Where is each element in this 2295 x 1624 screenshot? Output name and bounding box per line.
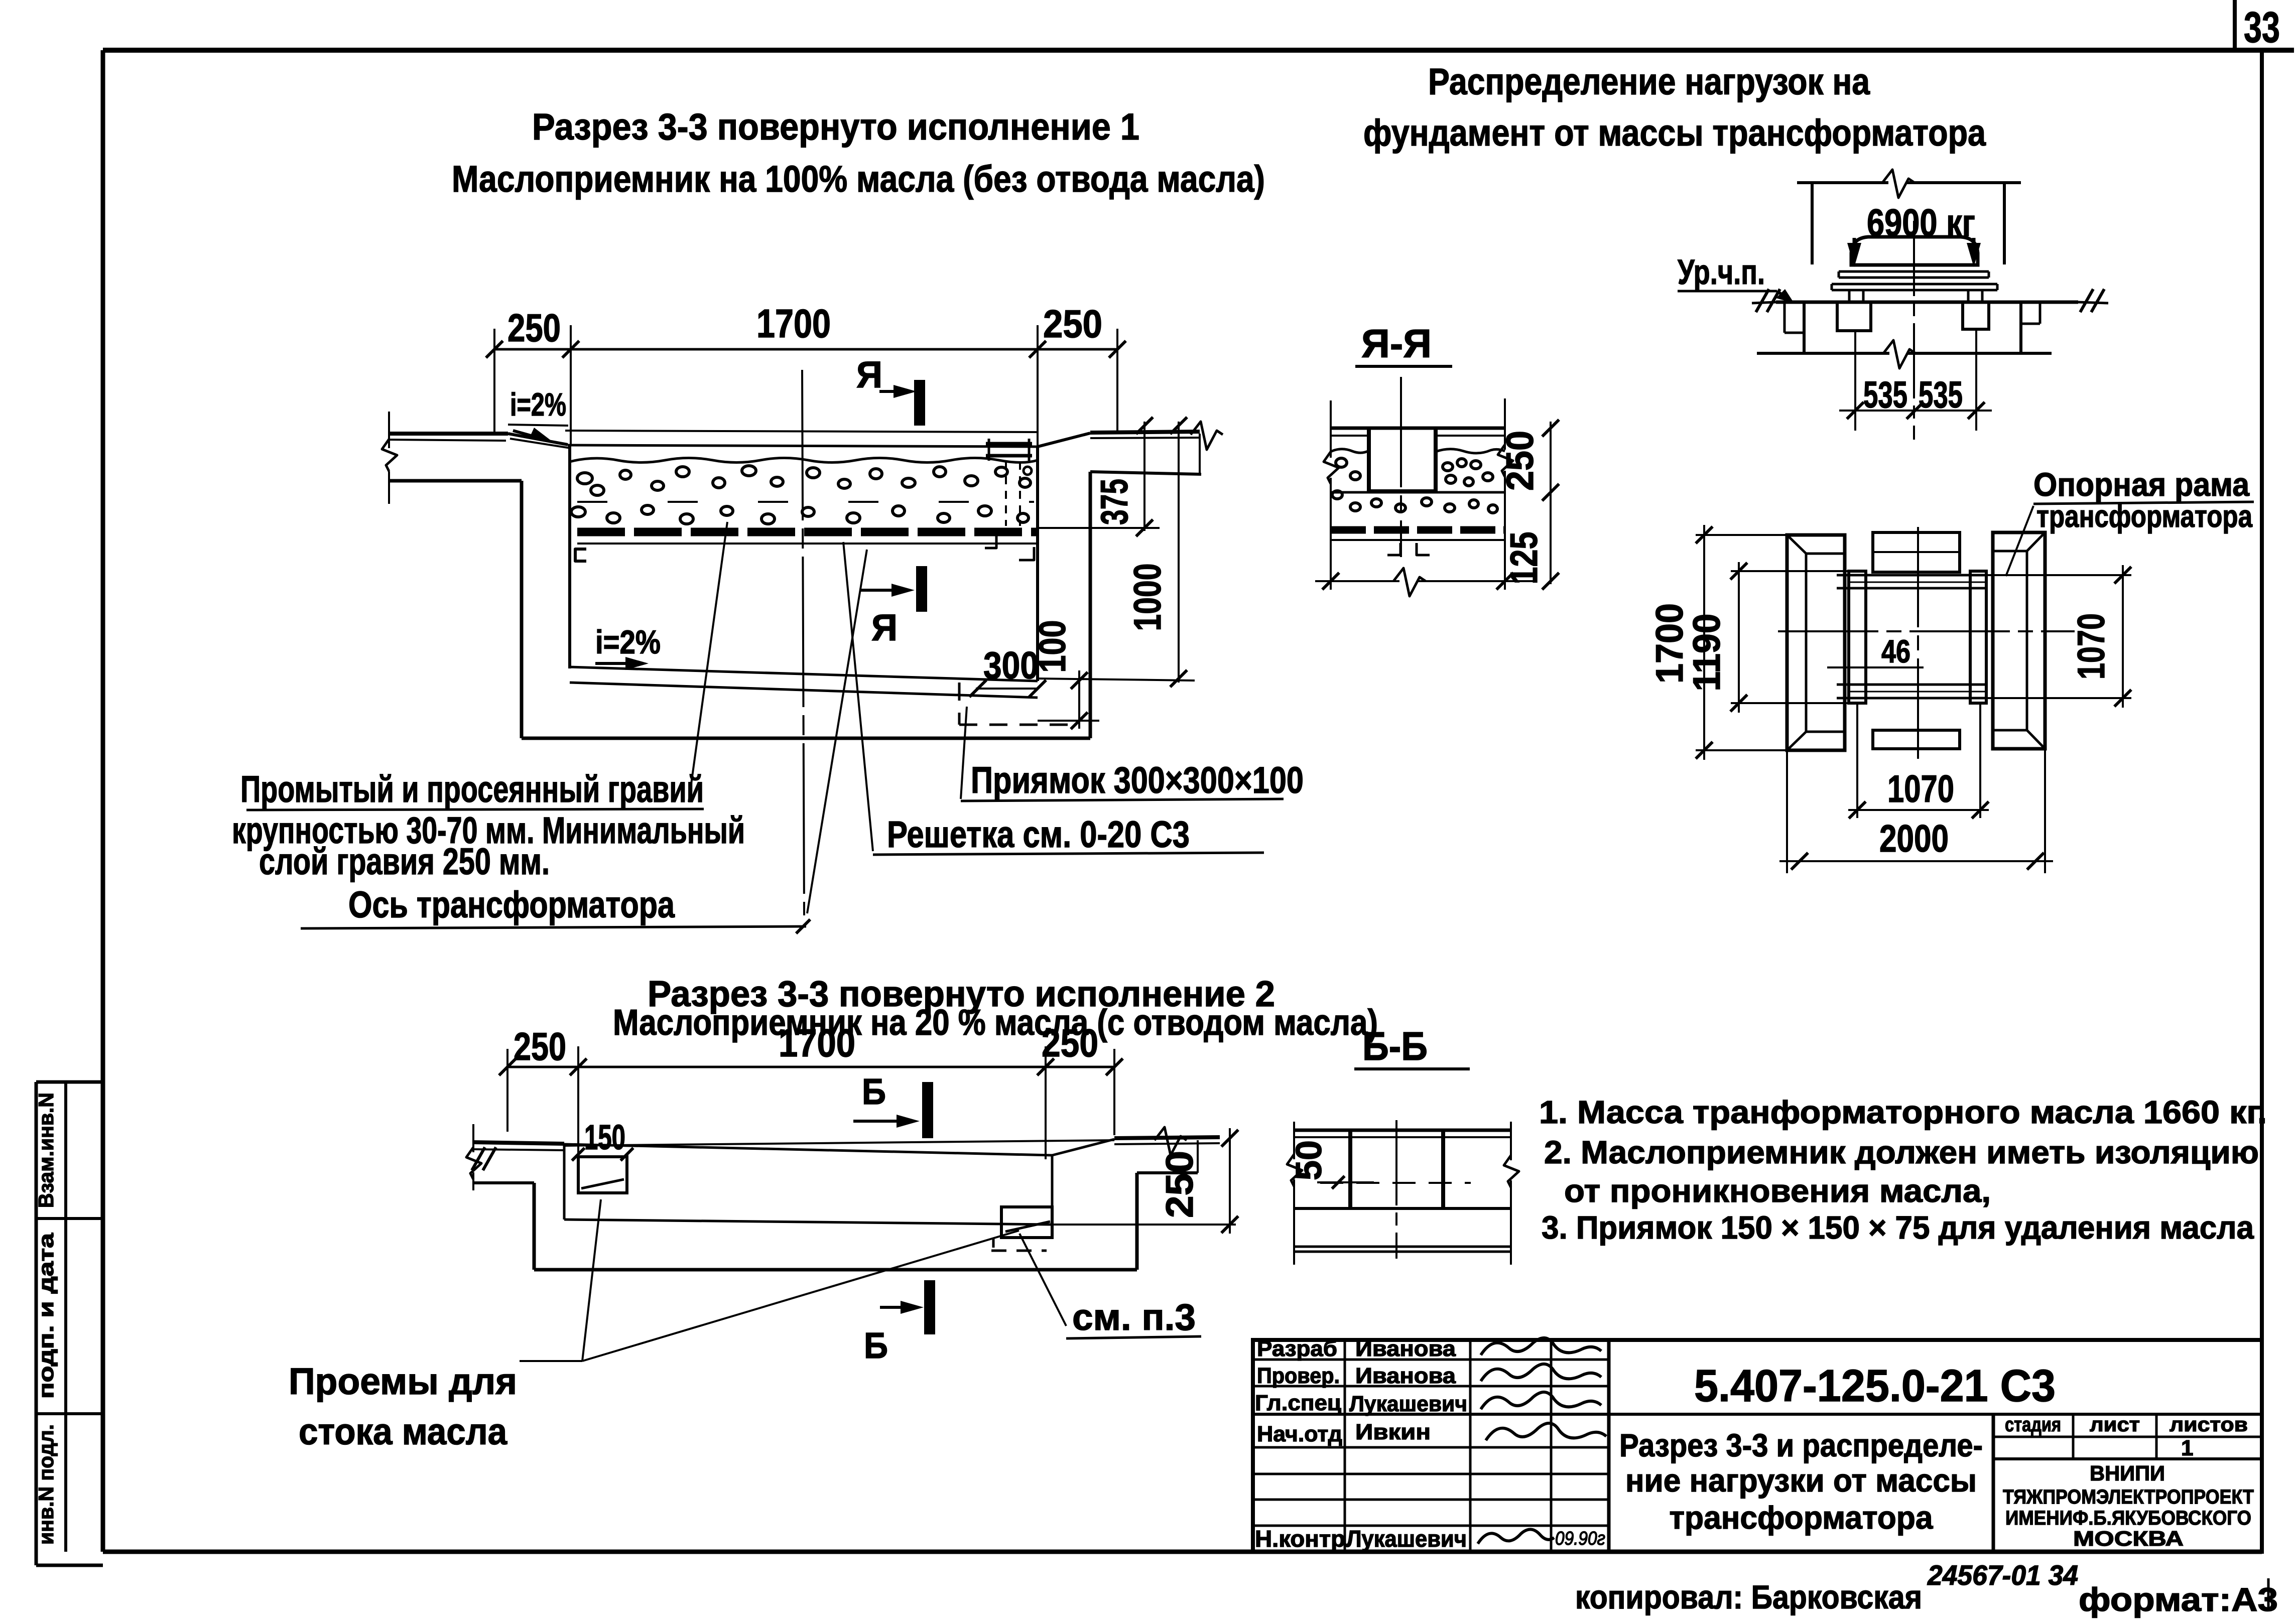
Я-Я: pit cross rectangle (1369, 428, 1436, 491)
section 1: grating (thick dashed bar) (577, 532, 1038, 544)
section Я-Я label (1355, 321, 1452, 366)
svg-text:фундамент от массы трансформат: фундамент от массы трансформатора (1363, 112, 1986, 154)
svg-text:1070: 1070 (2070, 613, 2113, 680)
Б-Б: dimension 50 (1289, 1140, 1374, 1189)
page number box 33 (2235, 0, 2280, 52)
svg-text:2. Маслоприемник должен иметь: 2. Маслоприемник должен иметь изоляцию (1544, 1134, 2259, 1170)
Б-Б: bottom slab lines (1294, 1247, 1511, 1252)
svg-text:слой гравия 250 мм.: слой гравия 250 мм. (259, 841, 550, 882)
svg-text:1700: 1700 (756, 301, 831, 346)
section mark Б lower (864, 1280, 930, 1366)
svg-text:1190: 1190 (1686, 614, 1728, 692)
Я-Я: grating center brackets (1387, 543, 1430, 555)
stamp: drawing title (1619, 1427, 1983, 1536)
Б-Б: left extension line (1287, 1122, 1302, 1265)
plan: axes (1778, 527, 2075, 762)
section mark Б upper (853, 1072, 928, 1138)
svg-text:Распределение нагрузок на: Распределение нагрузок на (1428, 61, 1870, 102)
svg-text:1700: 1700 (1648, 603, 1691, 684)
section 1: right wall inner face (1036, 447, 1039, 681)
section 1: anchor detail at right rim (986, 439, 1032, 526)
svg-text:Б-Б: Б-Б (1362, 1024, 1428, 1068)
label: see note 3 (1019, 1234, 1201, 1338)
section 1: curb top line across pit (565, 431, 1038, 432)
dimension 1190 (plan left) (1686, 562, 1849, 713)
svg-text:1. Масса транформаторного масл: 1. Масса транформаторного масла 1660 кг. (1539, 1094, 2267, 1130)
label: transformer axis (301, 884, 810, 933)
plan: label 46 (1827, 633, 1924, 669)
section 1: left slab underside (389, 479, 522, 483)
Б-Б: right extension line (1504, 1122, 1519, 1265)
svg-text:5.407-125.0-21 С3: 5.407-125.0-21 С3 (1694, 1361, 2056, 1411)
svg-text:трансформатора: трансформатора (1670, 1500, 1933, 1536)
svg-text:лист: лист (2090, 1414, 2140, 1436)
svg-text:Лукашевич: Лукашевич (1349, 1392, 1467, 1416)
svg-text:Я-Я: Я-Я (1361, 321, 1432, 366)
section 1: slope label i=2% lower (595, 623, 661, 670)
section 1: pryamok (sump) dashed outline (959, 683, 1079, 725)
dimension line 250/1700/250 (section 1) (486, 301, 1126, 446)
section 1: pit floor (slope i=2%) (570, 667, 1038, 698)
svg-text:подп. и дата: подп. и дата (34, 1233, 58, 1399)
load figure: load arrows (1847, 238, 1981, 267)
svg-text:см. п.3: см. п.3 (1072, 1296, 1196, 1338)
section 1: pit outer bottom (522, 737, 1090, 740)
section 1: leader to grating label (843, 542, 873, 851)
svg-text:09.90г: 09.90г (1555, 1528, 1605, 1549)
svg-text:Иванова: Иванова (1355, 1364, 1456, 1388)
Б-Б: top surface lines (1294, 1130, 1511, 1137)
section 1: right wall outer face (1089, 472, 1092, 738)
svg-text:ние нагрузки от массы: ние нагрузки от массы (1625, 1462, 1977, 1499)
label: pryamok 300x300x100 (961, 707, 1304, 801)
Б-Б: floor line (1294, 1207, 1511, 1210)
section 2: right wall outer and ledge (1137, 1140, 1198, 1270)
svg-text:46: 46 (1881, 633, 1910, 669)
load figure: ground line (1752, 289, 2108, 312)
svg-text:Разрез 3-3 и распределе-: Разрез 3-3 и распределе- (1619, 1427, 1983, 1463)
svg-text:33: 33 (2244, 4, 2280, 52)
svg-text:125: 125 (1503, 532, 1546, 585)
dimension 300 (sump width) (969, 644, 1046, 697)
section 2: right drain opening with sump (991, 1207, 1052, 1254)
svg-text:Иванова: Иванова (1355, 1336, 1456, 1361)
svg-text:стока масла: стока масла (299, 1411, 507, 1452)
plan: end plates (1849, 571, 1986, 703)
dimension 1000 (section 1 right) (1038, 417, 1195, 687)
section 2: right rim slope (1052, 1139, 1114, 1155)
Я-Я: gravel wavy tops (1331, 449, 1505, 453)
section Б-Б label (1354, 1024, 1470, 1069)
load figure: top bracket (1797, 170, 2021, 264)
svg-text:250: 250 (514, 1024, 566, 1068)
svg-text:Взам.инв.N: Взам.инв.N (34, 1093, 58, 1208)
section 2: pit floor surface (564, 1144, 1052, 1155)
section 2: pit outer bottom (534, 1268, 1137, 1272)
svg-text:250: 250 (507, 306, 561, 350)
svg-text:24567-01 34: 24567-01 34 (1927, 1559, 2078, 1591)
svg-text:1: 1 (2181, 1436, 2193, 1460)
section 1: gravel stones (571, 466, 1031, 524)
Б-Б: axes (1320, 1120, 1471, 1259)
svg-text:Маслоприемник на 100% масла (б: Маслоприемник на 100% масла (без отвода … (452, 158, 1265, 200)
svg-text:50: 50 (1289, 1140, 1329, 1180)
section 1: ground surface left (389, 434, 571, 448)
svg-text:Лукашевич: Лукашевич (1346, 1526, 1467, 1552)
dimension 1070 (plan right) (1986, 565, 2131, 708)
svg-text:3. Приямок 150 × 150 × 75 для: 3. Приямок 150 × 150 × 75 для удаления м… (1542, 1209, 2254, 1246)
section 1: gravel middle dashed line (577, 501, 1034, 503)
dimension 1070 (plan bottom) (1848, 703, 1989, 819)
Я-Я: gravel layer bottom line (1331, 491, 1505, 494)
svg-text:Ивкин: Ивкин (1355, 1420, 1431, 1444)
label opornaya rama (2006, 466, 2254, 576)
Я-Я: gravel stones (1332, 458, 1497, 513)
section 2: left wall and ledge (473, 1144, 564, 1270)
svg-text:Н.контр: Н.контр (1255, 1526, 1345, 1552)
dimension 375 (section 1 right) (1038, 417, 1160, 536)
stamp: stage/sheet header (2005, 1414, 2248, 1460)
dimension 250 (section 2 right) (1052, 1128, 1238, 1234)
svg-text:100: 100 (1032, 620, 1073, 673)
label Ur.ch.p. with arrow (1678, 252, 1794, 303)
section 1: slope label i=2% upper (508, 386, 568, 441)
svg-text:Ур.ч.п.: Ур.ч.п. (1678, 252, 1765, 292)
svg-text:i=2%: i=2% (510, 386, 566, 423)
Б-Б: pit rectangle (1350, 1130, 1443, 1208)
section 2: floor slab bottom (564, 1220, 1052, 1225)
svg-text:250: 250 (1042, 1021, 1098, 1065)
plan: frame rails (1837, 575, 1986, 698)
load figure: transformer body (1851, 237, 1978, 265)
svg-text:ТЯЖПРОМЭЛЕКТРОПРОЕКТ: ТЯЖПРОМЭЛЕКТРОПРОЕКТ (2003, 1486, 2254, 1508)
svg-text:формат:А3: формат:А3 (2079, 1581, 2278, 1618)
stamp: organization (2003, 1461, 2254, 1550)
section 1: gravel top wavy line (570, 458, 1038, 463)
svg-text:Приямок 300×300×100: Приямок 300×300×100 (971, 759, 1304, 801)
svg-text:Провер.: Провер. (1257, 1364, 1340, 1388)
svg-text:250: 250 (1043, 302, 1102, 346)
section 1: leader to axis label (807, 550, 867, 913)
section 2: right wall inner face (1051, 1155, 1054, 1238)
svg-text:375: 375 (1093, 479, 1136, 525)
section 1: pit rim top edge (568, 445, 1038, 447)
svg-text:1700: 1700 (779, 1021, 855, 1065)
Я-Я: center axis (1400, 377, 1402, 557)
svg-text:Я: Я (871, 607, 898, 648)
svg-text:535: 535 (1919, 374, 1963, 416)
section 2: left edge vertical (466, 1124, 481, 1190)
load figure: support legs (1849, 290, 1982, 302)
Я-Я: right dimension line 250/125 (1499, 420, 1559, 590)
svg-text:Ось трансформатора: Ось трансформатора (348, 884, 675, 925)
plan: center bottom block (1873, 730, 1960, 749)
section mark Я upper (856, 354, 920, 426)
svg-text:МОСКВА: МОСКВА (2073, 1527, 2184, 1550)
svg-text:листов: листов (2170, 1414, 2248, 1436)
svg-text:150: 150 (584, 1118, 625, 1157)
load figure: support rails (1832, 272, 1997, 290)
section 1: leader to gravel label (689, 522, 727, 802)
bottom: stray mark right (2267, 1578, 2270, 1611)
svg-text:Гл.спец: Гл.спец (1255, 1391, 1341, 1415)
section 1: grating left bracket (575, 549, 586, 561)
svg-text:Разрез 3-3 повернуто исполнени: Разрез 3-3 повернуто исполнение 1 (532, 106, 1139, 148)
svg-text:i=2%: i=2% (595, 623, 661, 660)
section 2: left drain opening 150 (572, 1118, 633, 1193)
svg-text:Опорная рама: Опорная рама (2033, 466, 2250, 503)
left margin stamp boxes (34, 1082, 103, 1565)
Я-Я: right extension line (1498, 398, 1513, 590)
svg-text:Промытый и просеянный гравий: Промытый и просеянный гравий (240, 768, 704, 810)
dimension 535/535 (1839, 330, 1992, 431)
label: openings for oil drain (289, 1199, 1019, 1452)
plan: left sleeper (1787, 535, 1845, 750)
stamp: outer box and grid (1253, 1340, 2262, 1552)
section 1: ground surface right (1038, 422, 1223, 450)
section 1: left wall outer face (520, 481, 524, 738)
dimension 2000 (plan bottom) (1779, 749, 2053, 873)
stamp: signatures (1478, 1338, 1606, 1544)
svg-text:1070: 1070 (1887, 768, 1954, 810)
section 1: left wall inner face (568, 445, 571, 668)
svg-text:535: 535 (1863, 374, 1907, 416)
svg-text:Я: Я (856, 354, 882, 395)
svg-text:250: 250 (1159, 1151, 1201, 1218)
section 2: ground surface right (1114, 1127, 1220, 1155)
plan: center top block (1873, 532, 1960, 572)
load figure: center axis (1913, 221, 1915, 440)
Я-Я: grating thick dashed bar (1331, 530, 1505, 540)
svg-text:Нач.отд: Нач.отд (1257, 1422, 1342, 1446)
svg-text:250: 250 (1499, 431, 1542, 491)
Я-Я: left extension line (1324, 400, 1339, 590)
svg-text:Б: Б (862, 1072, 886, 1112)
svg-text:Проемы для: Проемы для (289, 1361, 517, 1402)
svg-text:копировал: Барковская: копировал: Барковская (1575, 1578, 1922, 1615)
Я-Я: bottom dimension line with break (1315, 568, 1537, 596)
section 2: curb top line across pit (564, 1140, 1114, 1146)
section 1: grating right brackets (985, 533, 1034, 560)
section 1: left edge break (382, 412, 397, 504)
label: grating ref (873, 814, 1264, 855)
dimension 100 (sump depth) (1032, 620, 1099, 729)
svg-text:трансформатора: трансформатора (2036, 499, 2252, 534)
svg-text:Маслоприемник на 20 % масла (с: Маслоприемник на 20 % масла (с отводом м… (613, 1003, 1378, 1043)
svg-text:300: 300 (983, 644, 1039, 687)
dimension 1700 (plan left) (1648, 525, 1787, 760)
svg-text:Б: Б (864, 1326, 888, 1366)
svg-text:Разраб: Разраб (1257, 1336, 1337, 1361)
stamp: left table texts (1255, 1336, 1605, 1552)
section 1: right ledge (1090, 434, 1201, 474)
section mark Я lower (859, 566, 922, 648)
svg-text:2000: 2000 (1879, 818, 1949, 860)
svg-text:стадия: стадия (2005, 1414, 2061, 1436)
section 2: ground surface left (472, 1142, 564, 1170)
Я-Я: top surface lines (1331, 428, 1505, 436)
svg-text:ВНИПИ: ВНИПИ (2090, 1461, 2165, 1485)
svg-text:1000: 1000 (1126, 564, 1169, 631)
dimension line 250/1700/250 (section 2) (499, 1021, 1123, 1159)
svg-text:Решетка см. 0-20 С3: Решетка см. 0-20 С3 (887, 814, 1190, 855)
section 1: transformer axis line (802, 370, 804, 915)
svg-text:ИМЕНИФ.Б.ЯКУБОВСКОГО: ИМЕНИФ.Б.ЯКУБОВСКОГО (2005, 1507, 2251, 1529)
svg-text:от проникновения масла,: от проникновения масла, (1564, 1173, 1991, 1209)
plan: right sleeper (1993, 532, 2045, 749)
load figure: foundation blocks (1837, 302, 1989, 331)
load figure: pit outline below ground (1757, 302, 2052, 368)
svg-text:инв.N подл.: инв.N подл. (34, 1424, 58, 1545)
